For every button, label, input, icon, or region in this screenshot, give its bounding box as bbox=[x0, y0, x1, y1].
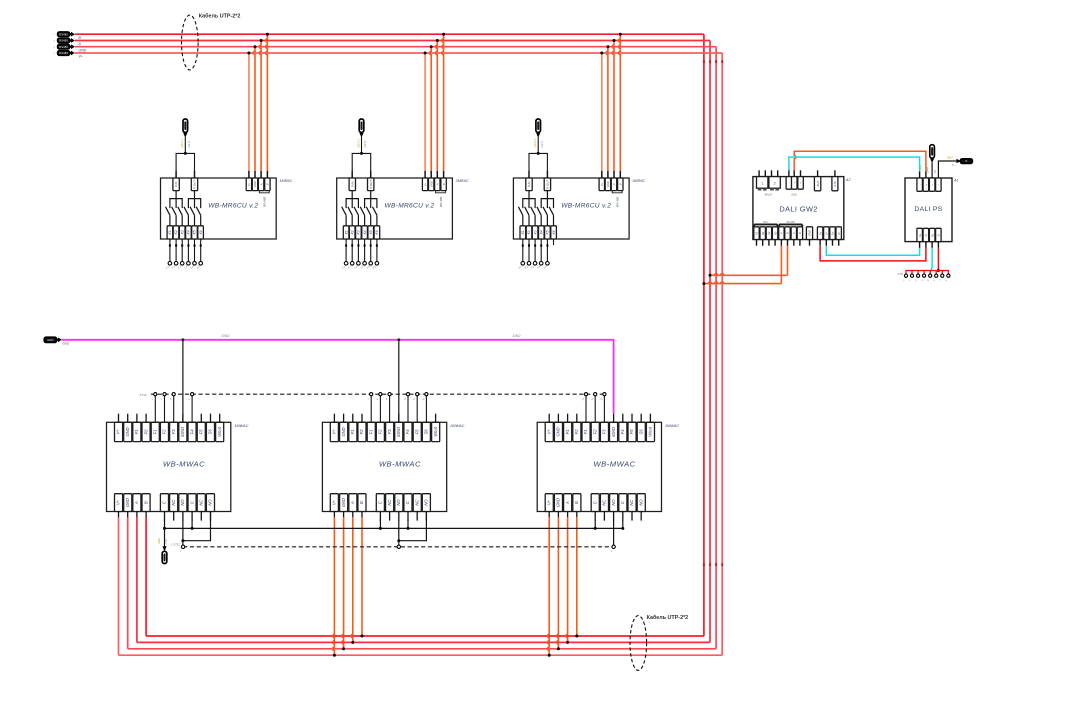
pin stub C bottom 1MWAC bbox=[191, 512, 193, 521]
junction tap A module 3 bbox=[613, 39, 616, 42]
pin stub DA+ GW2b bbox=[819, 240, 821, 246]
terminal DALI + GW2 bbox=[792, 177, 798, 190]
relay contact K3 module 2 bbox=[354, 207, 358, 215]
terminal iGND 2MWAC bbox=[395, 422, 403, 441]
svg-text:V+: V+ bbox=[423, 182, 427, 186]
svg-text:QF3.3: QF3.3 bbox=[533, 139, 537, 148]
terminal K5 module 1 bbox=[192, 226, 198, 239]
node output K6 module 2 bbox=[375, 262, 379, 266]
pin stub D-2 GW2 bbox=[838, 240, 840, 246]
svg-text:K6: K6 bbox=[552, 230, 556, 234]
pin stub V+ 2MWAC bbox=[333, 414, 335, 423]
node XT10 F1 2MWAC bbox=[370, 393, 373, 396]
wire N feed bbox=[938, 161, 957, 178]
svg-text:P2: P2 bbox=[143, 429, 148, 435]
svg-text:B: B bbox=[619, 183, 623, 185]
arrow leak connector bbox=[162, 546, 166, 551]
terminal F5 1MWAC bbox=[197, 422, 205, 441]
terminal V+ module 2 bbox=[422, 178, 427, 191]
wire C1 drop 1MWAC bbox=[164, 520, 166, 528]
svg-text:F2: F2 bbox=[162, 429, 167, 435]
svg-text:D+: D+ bbox=[919, 233, 922, 237]
wire RS-485 B top bus bbox=[75, 33, 704, 35]
svg-text:C2.5: C2.5 bbox=[363, 141, 367, 148]
svg-text:V+: V+ bbox=[79, 55, 83, 59]
terminal C bottom 1MWAC bbox=[160, 494, 168, 512]
pin stub DA- GW2b bbox=[825, 240, 827, 246]
terminal B module 1 bbox=[265, 178, 270, 191]
terminal F1 2MWAC bbox=[367, 422, 375, 441]
node XT10 F5 2MWAC bbox=[416, 393, 419, 396]
node XT10 F1 1MWAC bbox=[154, 393, 157, 396]
node output K4 module 1 bbox=[187, 262, 191, 266]
svg-text:A: A bbox=[134, 501, 139, 505]
pin stub B bottom 1MWAC bbox=[145, 512, 147, 518]
node output K2 module 2 bbox=[350, 262, 354, 266]
svg-text:F3: F3 bbox=[602, 429, 607, 435]
pin stub GND bottom 2MWAC bbox=[343, 512, 345, 518]
svg-text:D-: D- bbox=[838, 232, 841, 235]
terminal P2 2MWAC bbox=[358, 422, 366, 441]
junction C1 2MWAC bbox=[379, 527, 382, 530]
svg-text:Кабель UTP-2*2: Кабель UTP-2*2 bbox=[199, 13, 241, 20]
connector N bbox=[960, 159, 972, 164]
svg-text:V+: V+ bbox=[116, 429, 121, 435]
node XT10 F1 3MWAC bbox=[584, 393, 587, 396]
terminal ~ top DALI PS bbox=[929, 178, 935, 191]
wire RS-485 V+ 1MWAC riser bbox=[118, 517, 120, 655]
wire pin F2 2MWAC bbox=[379, 396, 381, 422]
svg-text:GND: GND bbox=[253, 181, 257, 187]
node output K1 module 2 bbox=[344, 262, 348, 266]
svg-text:WB-MR6CU v.2: WB-MR6CU v.2 bbox=[384, 203, 434, 210]
svg-text:GND: GND bbox=[125, 498, 130, 507]
terminal 0 OUT module 1 bbox=[191, 178, 197, 191]
pin stub NO bottom 3MWAC bbox=[640, 512, 642, 521]
junction tap GND 3MWAC bbox=[557, 647, 560, 650]
junction tap GND module 1 bbox=[254, 45, 257, 48]
svg-text:D+: D+ bbox=[931, 233, 934, 237]
relay contact K2 module 3 bbox=[525, 207, 529, 215]
svg-text:RS485: RS485 bbox=[59, 45, 68, 49]
node XT10 F4 2MWAC bbox=[406, 393, 409, 396]
svg-text:K3: K3 bbox=[533, 230, 537, 234]
junction tap B module 2 bbox=[442, 33, 445, 36]
svg-text:GND: GND bbox=[429, 181, 433, 187]
wire DALI plus orange bbox=[794, 151, 926, 171]
svg-text:C6: C6 bbox=[933, 170, 937, 174]
bracket RS-485 module 1 bbox=[259, 191, 269, 193]
terminal B rs485 bottom GW2 bbox=[785, 227, 790, 240]
rail group2 module 2 bbox=[365, 199, 377, 209]
bracket RS-485 module 3 bbox=[612, 191, 622, 193]
pin stub GND GW2 bbox=[809, 240, 811, 246]
wire C1 drop 2MWAC bbox=[379, 520, 381, 528]
svg-text:NO: NO bbox=[638, 499, 643, 506]
terminal C bottom 3MWAC bbox=[591, 494, 599, 512]
terminal DALI - GW2 bbox=[786, 177, 792, 190]
terminal K6 module 2 bbox=[374, 226, 380, 239]
svg-text:K2: K2 bbox=[350, 230, 354, 234]
svg-text:iGND: iGND bbox=[396, 427, 401, 437]
svg-text:-: - bbox=[787, 182, 791, 183]
wire pump common bus bbox=[165, 527, 623, 529]
junction tap B 2MWAC bbox=[361, 635, 364, 638]
wire tap B module 3 bbox=[619, 34, 621, 171]
fuse FU4 holder bbox=[930, 145, 935, 158]
wire pin F4 2MWAC bbox=[407, 396, 409, 422]
svg-text:K4: K4 bbox=[540, 230, 544, 234]
wire pin F4 1MWAC bbox=[191, 396, 193, 422]
terminal B bottom 1MWAC bbox=[142, 494, 150, 512]
svg-text:2MWAC: 2MWAC bbox=[449, 424, 464, 428]
fuse QF2 holder bbox=[359, 119, 364, 132]
wire output K1 module 3 bbox=[522, 239, 524, 262]
terminal V+ module 1 bbox=[246, 178, 251, 191]
wire output K1 module 2 bbox=[345, 239, 347, 262]
junction tap GND module 3 bbox=[606, 45, 609, 48]
wire pin F5 2MWAC bbox=[416, 396, 418, 422]
wire XT9 drop 5 bbox=[929, 271, 931, 275]
svg-text:F2: F2 bbox=[592, 429, 597, 435]
svg-text:1MWAC: 1MWAC bbox=[234, 424, 248, 428]
terminal NC bottom 3MWAC bbox=[628, 494, 636, 512]
svg-text:RTU: RTU bbox=[763, 221, 768, 224]
pin stub C bottom 1MWAC bbox=[164, 512, 166, 521]
svg-text:B: B bbox=[359, 501, 364, 504]
svg-text:+24: +24 bbox=[926, 166, 929, 171]
terminal P2 1MWAC bbox=[142, 422, 150, 441]
bus XT9 red bbox=[906, 271, 948, 275]
node XT9.2 bbox=[910, 274, 913, 277]
svg-text:F1: F1 bbox=[583, 430, 588, 435]
junction tap V+ 3MWAC bbox=[548, 654, 551, 657]
terminal B module 3 bbox=[618, 178, 623, 191]
wire fuse feed module 1 bbox=[184, 137, 186, 154]
stub output K6 module 3 bbox=[553, 239, 555, 245]
wire feed rail module 3 bbox=[529, 153, 547, 170]
wire output K5 module 2 bbox=[370, 239, 372, 262]
terminal GND bottom 3MWAC bbox=[554, 494, 562, 512]
terminal V+ 2MWAC bbox=[330, 422, 338, 441]
node output K6 module 1 bbox=[199, 262, 203, 266]
node XT9.3 bbox=[917, 274, 920, 277]
wire output K6 module 1 bbox=[200, 239, 202, 262]
terminal K3 module 2 bbox=[356, 226, 362, 239]
terminal GND module 2 bbox=[429, 178, 434, 191]
wire DA- cyan bbox=[826, 246, 919, 256]
wire output K2 module 1 bbox=[175, 239, 177, 262]
junction C1 1MWAC bbox=[163, 527, 166, 530]
junction tap V+ module 1 bbox=[247, 52, 250, 55]
junction C2 3MWAC bbox=[621, 527, 624, 530]
pin stub A GW2b bbox=[787, 240, 789, 246]
svg-text:~: ~ bbox=[937, 184, 941, 186]
terminal F5 2MWAC bbox=[413, 422, 421, 441]
fuse QF1 holder bbox=[183, 119, 188, 132]
pin stub DA- PSb bbox=[919, 242, 921, 248]
node output K4 module 2 bbox=[363, 262, 367, 266]
pin stub Wout 3MWAC bbox=[649, 414, 651, 423]
svg-text:Кабель UTP-2*2: Кабель UTP-2*2 bbox=[647, 614, 689, 621]
pin stub V+ module 1 bbox=[248, 171, 250, 178]
svg-text:K2: K2 bbox=[174, 230, 178, 234]
wire fuse feed module 3 bbox=[537, 137, 539, 154]
svg-text:K6: K6 bbox=[375, 230, 379, 234]
wire tap B module 1 bbox=[266, 34, 268, 171]
relay contact K4 module 3 bbox=[537, 207, 541, 215]
svg-text:3Ш4: 3Ш4 bbox=[947, 155, 953, 159]
svg-text:A: A bbox=[350, 501, 355, 505]
svg-text:C: C bbox=[162, 501, 167, 504]
terminal B bottom 2MWAC bbox=[358, 494, 366, 512]
junction tap B 3MWAC bbox=[575, 635, 578, 638]
pin stub B GW2b bbox=[780, 240, 782, 246]
terminal 0 IN module 1 bbox=[173, 178, 179, 191]
svg-text:NO: NO bbox=[180, 499, 185, 506]
terminal P1 3MWAC bbox=[564, 422, 572, 441]
terminal P1 2MWAC bbox=[349, 422, 357, 441]
pin stub GND 1MWAC bbox=[127, 414, 129, 423]
wire RS-485 GND bottom bus bbox=[128, 648, 716, 650]
terminal V+ bottom 3MWAC bbox=[545, 494, 553, 512]
wire tap A module 1 bbox=[259, 41, 261, 171]
terminal NO bottom 1MWAC bbox=[206, 494, 214, 512]
wire pin F3 1MWAC bbox=[173, 396, 175, 422]
wire tap V+ module 1 bbox=[248, 53, 250, 171]
wire tap B 3MWAC bbox=[576, 517, 578, 636]
svg-text:K4: K4 bbox=[363, 230, 367, 234]
terminal A rs485 bottom GW2 bbox=[791, 227, 796, 240]
wire DALI minus cyan bbox=[789, 157, 920, 171]
wire output K6 module 2 bbox=[376, 239, 378, 262]
wire output K3 module 1 bbox=[181, 239, 183, 262]
svg-text:WB-MR6CU v.2: WB-MR6CU v.2 bbox=[208, 203, 258, 210]
pin stub NC bottom 2MWAC bbox=[416, 512, 418, 521]
svg-text:P2: P2 bbox=[359, 429, 364, 435]
svg-text:A: A bbox=[612, 183, 616, 186]
terminal D+ bottom DALI PS bbox=[917, 228, 923, 241]
wire NO drop 3MWAC bbox=[613, 520, 615, 545]
wire iGND 1MWAC bbox=[182, 340, 184, 423]
svg-text:P1: P1 bbox=[350, 429, 355, 434]
pin stub GND 3MWAC bbox=[557, 414, 559, 423]
wire output K2 module 3 bbox=[528, 239, 530, 262]
pin stub B module 1 bbox=[266, 171, 268, 178]
svg-text:F3: F3 bbox=[171, 429, 176, 435]
node XT10 F3 3MWAC bbox=[603, 393, 606, 396]
terminal NO bottom 2MWAC bbox=[422, 494, 430, 512]
terminal GND 1MWAC bbox=[124, 422, 132, 441]
pin stub iGND 2MWAC bbox=[398, 414, 400, 423]
connector leak sensor bbox=[162, 551, 167, 563]
terminal S6 1MWAC bbox=[206, 422, 214, 441]
meter module P1 WB-MWAC body bbox=[107, 422, 231, 511]
svg-text:C: C bbox=[620, 501, 625, 504]
svg-text:RELAY: RELAY bbox=[765, 193, 773, 196]
svg-text:D-: D- bbox=[938, 234, 941, 237]
node output K2 module 1 bbox=[174, 262, 178, 266]
wire pin S6 2MWAC bbox=[425, 396, 427, 422]
svg-text:WB-MWAC: WB-MWAC bbox=[594, 460, 636, 469]
wire tick top GND bbox=[715, 60, 717, 63]
wire RS-485 B bottom bus bbox=[146, 635, 704, 637]
svg-text:RS485: RS485 bbox=[59, 51, 68, 55]
terminal C bottom 1MWAC bbox=[188, 494, 196, 512]
relay contact K5 module 3 bbox=[543, 207, 547, 215]
svg-text:C: C bbox=[189, 501, 194, 504]
svg-text:NO: NO bbox=[208, 499, 213, 506]
rail group2 module 1 bbox=[188, 199, 200, 209]
terminal K6 module 3 bbox=[551, 226, 557, 239]
node output K3 module 3 bbox=[533, 262, 537, 266]
wire RS-485 V+ right drop bbox=[721, 53, 723, 655]
pin stub V+ 1MWAC bbox=[118, 414, 120, 423]
junction iGND 1 bbox=[182, 338, 185, 341]
terminal NC bottom 1MWAC bbox=[170, 494, 178, 512]
terminal C bottom 2MWAC bbox=[404, 494, 412, 512]
node output K1 module 3 bbox=[521, 262, 525, 266]
terminal K5 module 3 bbox=[545, 226, 551, 239]
svg-text:-: - bbox=[918, 184, 922, 185]
wire RS-485 A top bus bbox=[75, 40, 710, 42]
terminal B2 bottom GW2 bbox=[772, 227, 777, 240]
svg-text:F4: F4 bbox=[189, 429, 194, 435]
svg-text:RS485: RS485 bbox=[59, 39, 68, 43]
terminal Wout 1MWAC bbox=[216, 422, 224, 441]
connector X4 RS-485 V+ bbox=[58, 51, 75, 56]
svg-text:S6: S6 bbox=[208, 429, 213, 435]
terminal A bottom 2MWAC bbox=[349, 494, 357, 512]
relay contact K2 module 2 bbox=[348, 207, 352, 215]
pin stub P1 1MWAC bbox=[136, 414, 138, 423]
svg-text:C2.5: C2.5 bbox=[187, 141, 191, 148]
svg-text:F2: F2 bbox=[378, 429, 383, 435]
wire PS D+ to XT9 bbox=[937, 248, 939, 271]
terminal A bottom 3MWAC bbox=[564, 494, 572, 512]
svg-text:RS-485: RS-485 bbox=[787, 221, 796, 224]
terminal 0 IN module 3 bbox=[526, 178, 532, 191]
terminal ~ top DALI PS bbox=[936, 178, 942, 191]
terminal V+ 3MWAC bbox=[545, 422, 553, 441]
rail group1 module 3 bbox=[523, 199, 535, 209]
terminal + top DALI PS bbox=[923, 178, 929, 191]
svg-text:DALI: DALI bbox=[792, 193, 798, 196]
svg-text:B: B bbox=[266, 183, 270, 185]
pin stub A2 GW2 bbox=[768, 240, 770, 246]
wire pin F1 1MWAC bbox=[154, 396, 156, 422]
pin stub A bottom 2MWAC bbox=[352, 512, 354, 518]
junction fuse rail 2 bbox=[360, 152, 363, 155]
terminal K2 module 3 bbox=[526, 226, 532, 239]
svg-text:Wout: Wout bbox=[217, 426, 222, 436]
wire output K4 module 1 bbox=[187, 239, 189, 262]
svg-text:C: C bbox=[378, 501, 383, 504]
svg-text:GND: GND bbox=[809, 230, 812, 236]
terminal D- bottom DALI PS bbox=[923, 228, 929, 241]
node XT10 F3 2MWAC bbox=[388, 393, 391, 396]
terminal B bottom 3MWAC bbox=[573, 494, 581, 512]
terminal STATUS GW2 bbox=[832, 177, 838, 191]
wire output K5 module 1 bbox=[194, 239, 196, 262]
junction C2 2MWAC bbox=[407, 527, 410, 530]
terminal GND module 1 bbox=[252, 178, 257, 191]
terminal F3 2MWAC bbox=[386, 422, 394, 441]
svg-text:ETH: ETH bbox=[833, 180, 837, 187]
pin stub iGND 3MWAC bbox=[613, 414, 615, 423]
pin stub P1 2MWAC bbox=[352, 414, 354, 423]
svg-text:F5: F5 bbox=[414, 429, 419, 435]
node output K5 module 1 bbox=[193, 262, 197, 266]
terminal B module 2 bbox=[441, 178, 446, 191]
svg-text:N: N bbox=[965, 159, 967, 163]
wire feed rail module 1 bbox=[176, 153, 194, 170]
wire tick top V+ bbox=[721, 60, 723, 63]
pin stub NC bottom 2MWAC bbox=[389, 512, 391, 521]
terminal K3 module 1 bbox=[179, 226, 185, 239]
wire C feed 1MWAC bbox=[164, 528, 166, 547]
pin stub NC bottom 3MWAC bbox=[603, 512, 605, 521]
svg-text:iGND: iGND bbox=[513, 334, 521, 338]
fuse QF3 holder bbox=[536, 119, 541, 132]
svg-text:iGND: iGND bbox=[222, 334, 230, 338]
pin stub GND 2MWAC bbox=[343, 414, 345, 423]
svg-text:~: ~ bbox=[930, 184, 934, 186]
wire RS-485 GND top bus bbox=[75, 46, 716, 48]
pin stub NC bottom 1MWAC bbox=[173, 512, 175, 521]
terminal K5 module 2 bbox=[368, 226, 374, 239]
hood RTU GW2 bbox=[754, 224, 779, 226]
svg-text:K5: K5 bbox=[369, 230, 373, 234]
junction C1 3MWAC bbox=[594, 527, 597, 530]
pin stub GND module 2 bbox=[430, 171, 432, 178]
pin stub GND module 3 bbox=[607, 171, 609, 178]
svg-text:F3: F3 bbox=[387, 429, 392, 435]
wire GW2 A to bus bbox=[787, 246, 789, 276]
svg-text:0 IN: 0 IN bbox=[527, 181, 531, 187]
wire tick bottom B bbox=[703, 563, 705, 566]
wire RS-485 A bottom bus bbox=[137, 641, 710, 643]
node XT12.2 bbox=[397, 545, 400, 548]
wire XT9 drop 4 bbox=[923, 271, 925, 275]
rail group2 module 3 bbox=[541, 199, 553, 209]
relay module A5 WB-MR6CU v.2 body bbox=[513, 178, 629, 239]
svg-text:AUX: AUX bbox=[816, 181, 820, 188]
svg-text:t 16: t 16 bbox=[164, 539, 168, 544]
svg-text:GND: GND bbox=[62, 342, 68, 346]
terminal 0 OUT module 2 bbox=[368, 178, 374, 191]
pin stub DALI spare GW2 bbox=[800, 170, 802, 176]
terminal - top DALI PS bbox=[917, 178, 923, 191]
wire C2 drop 2MWAC bbox=[407, 520, 409, 528]
svg-text:iGND: iGND bbox=[611, 427, 616, 437]
pin stub + PS bbox=[925, 171, 927, 178]
terminal iGND 3MWAC bbox=[610, 422, 618, 441]
wire RS-485 B right drop bbox=[703, 34, 705, 636]
svg-text:0 IN: 0 IN bbox=[174, 181, 178, 187]
pin stub D-r PSb bbox=[937, 242, 939, 248]
svg-text:GND: GND bbox=[919, 165, 922, 171]
pin stub GND module 1 bbox=[254, 171, 256, 178]
junction tap V+ module 3 bbox=[600, 52, 603, 55]
terminal AUX GW2 bbox=[814, 177, 820, 191]
wire output K1 module 1 bbox=[169, 239, 171, 262]
junction tap V+ 2MWAC bbox=[333, 654, 336, 657]
wire RS-485 GND right drop bbox=[715, 47, 717, 649]
svg-text:NO: NO bbox=[396, 499, 401, 506]
terminal relay 1 DALI GW2 bbox=[757, 177, 768, 189]
svg-text:iGND: iGND bbox=[180, 427, 185, 437]
